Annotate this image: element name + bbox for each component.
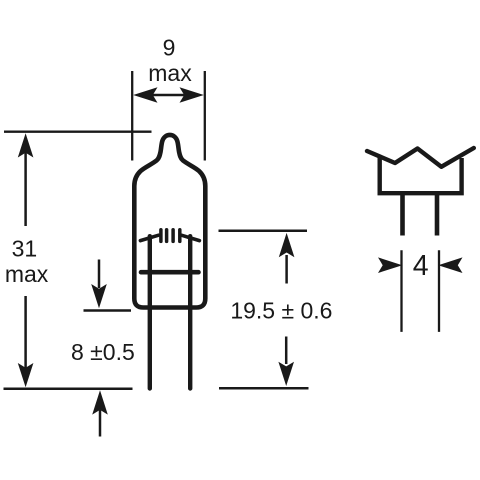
lead wire / pin left [148,236,152,388]
bottom-right reference line (pin end level) [219,387,309,390]
dimension 9 max: left extension line [131,71,133,161]
bulb envelope outline [134,135,205,308]
filament support wire right [181,235,199,240]
dimension 19.5: top reference line (filament level) [219,229,308,232]
base view: pin right [435,195,440,236]
dimension 19.5: down arrow [278,337,294,387]
filament coil [161,230,180,242]
dimension 19.5: up arrow [279,233,295,284]
base view: pinch body outline [380,155,462,193]
dimension 31 max: dimension line upper segment with up arrowhead [18,133,34,226]
base view: broken-glass zigzag top edge [367,148,474,167]
svg-text:8 ±0.5: 8 ±0.5 [71,339,135,365]
dimension 4: left arrowhead pointing right [378,257,402,273]
pinch seal line [141,270,199,275]
svg-text:4: 4 [413,250,429,282]
dimension 8 +/-0.5: bulb bottom reference tick [84,309,132,312]
bottom-left reference line (pin end level) [4,387,133,390]
svg-text:19.5 ± 0.6: 19.5 ± 0.6 [230,298,332,324]
svg-text:31: 31 [12,235,38,261]
lead wire / pin right [188,236,192,388]
dimension 8 +/-0.5: up arrow to pin end level [92,390,108,436]
dimension 9 max: right extension line [204,71,206,161]
dimension 9 max: double-headed arrow [133,87,204,103]
base view: pin left [400,195,405,236]
svg-text:9: 9 [163,35,176,61]
svg-text:max: max [5,261,49,287]
dimension 8 +/-0.5: down arrow to bulb bottom [91,260,107,309]
svg-text:max: max [148,60,192,86]
dimension 4: left extension line [400,250,402,332]
dimension 31 max: dimension line lower segment with down arrowhead [18,296,34,387]
filament support wire left [140,235,158,240]
dimension 9 max: top reference line [4,131,152,133]
dimension 4: right extension line [438,250,440,332]
dimension 4: right arrowhead pointing left [438,257,462,273]
